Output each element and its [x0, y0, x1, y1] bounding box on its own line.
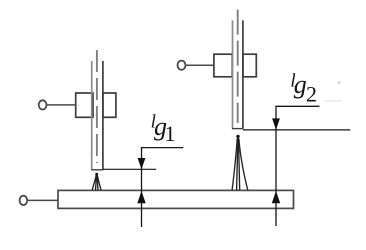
right needle electrode cone	[232, 139, 248, 190]
lg1 dimension vertical line	[141, 148, 143, 227]
lg1 extension line	[103, 168, 156, 170]
left electrode tube right wall	[102, 61, 104, 170]
right holder box right	[243, 54, 256, 77]
right needle neck	[237, 137, 239, 143]
lg1 leader line	[141, 147, 183, 149]
left needle neck	[96, 175, 98, 180]
svg-text:1: 1	[165, 121, 176, 146]
left needle tip dot	[95, 173, 98, 176]
wire right lead	[186, 64, 214, 66]
left electrode tube left wall	[91, 61, 93, 170]
left holder box left	[76, 93, 93, 117]
left holder box right	[103, 93, 116, 117]
lg2 extension line	[243, 129, 350, 131]
right holder box left	[214, 54, 232, 77]
svg-text:g: g	[294, 70, 307, 99]
lg2 arrow up	[272, 191, 280, 203]
left gap: terminal	[39, 100, 47, 109]
faint scan artifact dot	[337, 81, 340, 84]
lg2 dimension vertical line	[275, 106, 277, 226]
plate terminal	[20, 196, 28, 205]
lg2 leader line	[275, 105, 319, 107]
left electrode center line	[96, 50, 98, 163]
faint scan artifact line	[324, 100, 342, 102]
wire left lead	[47, 104, 76, 106]
right electrode tube left wall	[232, 20, 234, 128]
plate (bottom electrode bar)	[58, 190, 294, 208]
right electrode tube right wall	[242, 20, 244, 128]
svg-text:2: 2	[306, 81, 317, 106]
right electrode tube bottom	[232, 128, 243, 130]
left needle electrode cone	[92, 175, 101, 190]
right gap: terminal	[178, 61, 186, 70]
lg1 arrow down	[138, 158, 146, 169]
left electrode tube bottom	[91, 169, 103, 171]
right needle tip dot	[236, 135, 239, 138]
lg2 arrow down	[272, 118, 280, 129]
wire plate lead	[27, 199, 58, 201]
right electrode center line	[237, 10, 239, 123]
lg1 arrow up	[137, 191, 145, 203]
